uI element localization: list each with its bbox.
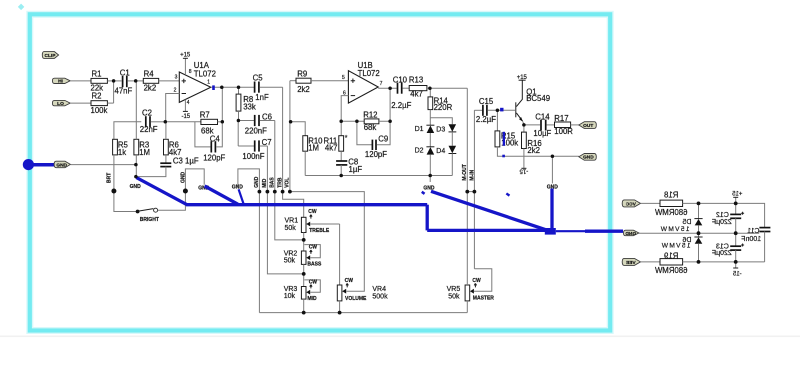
svg-text:120pF: 120pF <box>203 154 225 163</box>
junction R13/R14 <box>428 86 432 90</box>
resistor R9 2k2 <box>290 70 349 94</box>
wire M-IN vertical <box>473 110 475 268</box>
junction M-OUT <box>465 190 469 194</box>
svg-text:120pF: 120pF <box>365 150 387 159</box>
junction PSU VCC/C12 <box>734 202 738 206</box>
resistor R11 4k7 <box>324 121 348 152</box>
svg-text:R4: R4 <box>144 69 155 78</box>
resistor R16 2k2 <box>522 125 542 168</box>
resistor R12 68k <box>363 88 390 132</box>
wire VR2 bottom to VR3 <box>303 264 305 286</box>
wire VEE rail to corner <box>683 261 765 263</box>
junction bus VOL <box>288 190 292 194</box>
wire U1B pin6 to feedback <box>341 96 348 122</box>
svg-text:VEE: VEE <box>625 260 635 266</box>
wire M-OUT/M-IN link <box>467 191 474 193</box>
resistor R6 4k7 <box>164 122 182 163</box>
svg-text:BC549: BC549 <box>526 94 550 103</box>
zener diode D5 15VMW <box>660 203 703 233</box>
wire R2 up to node A <box>113 81 115 103</box>
capacitor C10 2.2uF <box>378 75 411 110</box>
resistor R19 680RMW (mirrored labels) <box>654 251 687 275</box>
svg-text:C14: C14 <box>535 113 550 122</box>
svg-text:2.2µF: 2.2µF <box>391 101 411 110</box>
svg-text:4k7: 4k7 <box>325 144 338 153</box>
net GND bus vertical <box>258 192 260 313</box>
svg-text:-15: -15 <box>732 271 741 277</box>
svg-text:BASS: BASS <box>307 261 322 267</box>
wire VCC rail to corner <box>683 203 765 227</box>
svg-text:1µF: 1µF <box>349 165 363 174</box>
svg-text:LO: LO <box>57 101 64 107</box>
blue net GND highlight: diag from switch stub <box>205 186 238 204</box>
power +15 symbol (Q1 collector) <box>517 75 528 81</box>
junction C8 ground <box>339 174 343 178</box>
svg-text:22nF: 22nF <box>140 125 158 134</box>
svg-text:15VMW: 15VMW <box>660 226 690 233</box>
switch BRIGHT <box>136 208 159 223</box>
wire VOL bus to volume pot wiper <box>290 192 364 292</box>
net VOL bus vertical <box>289 81 291 192</box>
junction PSU VEE/D6 <box>697 260 701 264</box>
svg-text:C4: C4 <box>210 134 221 143</box>
svg-text:C1: C1 <box>120 68 130 77</box>
wire emitter node to C14 <box>524 124 540 126</box>
capacitor C1 47nF <box>115 68 136 95</box>
svg-text:680RMW: 680RMW <box>654 208 687 217</box>
svg-text:CW: CW <box>308 209 317 215</box>
resistor R3 1M <box>134 81 150 177</box>
svg-text:1M: 1M <box>139 148 150 157</box>
resistor R15 100k <box>495 110 579 156</box>
wire output node down to feedback <box>221 87 223 122</box>
svg-text:TL072: TL072 <box>194 70 216 79</box>
svg-text:100nF: 100nF <box>741 236 761 243</box>
svg-text:8: 8 <box>189 69 192 75</box>
capacitor C4 120pF (parallel loop) <box>195 122 226 163</box>
svg-text:R9: R9 <box>297 70 307 79</box>
svg-text:R2: R2 <box>92 92 102 101</box>
svg-text:OUT: OUT <box>583 123 593 129</box>
resistor R7 68k <box>200 111 223 136</box>
svg-text:2k2: 2k2 <box>144 84 157 93</box>
sheet border frame (cyan) <box>30 14 610 330</box>
svg-text:D3: D3 <box>436 126 445 133</box>
power +15 symbol (PSU, mirrored) <box>732 192 743 204</box>
junction R15 top <box>496 109 500 113</box>
net label GND (ground run stub) <box>429 176 431 183</box>
resistor R13 4k7 <box>409 75 467 98</box>
junction R1/R2/C1 <box>112 79 116 83</box>
potentiometer VR5 50k MASTER <box>447 269 495 313</box>
zener diode D6 15VMW <box>661 233 703 262</box>
svg-text:MASTER: MASTER <box>473 296 495 302</box>
svg-text:C10: C10 <box>393 75 408 84</box>
diode D3 <box>436 124 456 146</box>
wire R5 top to C2 <box>114 122 141 140</box>
blue net GND highlight: vertical drop <box>426 205 429 231</box>
svg-text:+15: +15 <box>517 75 528 81</box>
svg-text:220nF: 220nF <box>245 127 267 136</box>
wire M-OUT vertical <box>466 88 468 285</box>
connector tag VEE (mirrored) <box>622 258 640 265</box>
svg-text:GND: GND <box>254 176 260 188</box>
svg-text:680RMW: 680RMW <box>654 266 687 275</box>
svg-text:*: * <box>345 135 348 142</box>
blue net GND highlight: lower horizontal run <box>427 229 546 232</box>
wire feedback row to R12 <box>341 120 364 122</box>
svg-text:GND: GND <box>56 162 67 168</box>
power -15 symbol (PSU, mirrored) <box>732 262 741 278</box>
capacitor C5 1nF <box>253 74 283 103</box>
blue highlight artifact over R15 label <box>503 132 505 146</box>
transistor Q1 BC549 <box>516 80 550 125</box>
svg-text:C12: C12 <box>716 212 729 219</box>
wire GND tag to R3 bottom <box>70 164 135 166</box>
svg-text:+15: +15 <box>732 192 743 198</box>
svg-text:TL072: TL072 <box>358 69 380 78</box>
capacitor C12 220uF (mirrored labels) <box>712 203 744 233</box>
blue net GND: medium segment to border <box>556 230 585 232</box>
svg-text:VR4: VR4 <box>372 286 386 293</box>
junction VR1/VR2/BAS <box>302 238 306 242</box>
svg-text:C6: C6 <box>262 112 272 121</box>
svg-text:-15: -15 <box>519 168 528 174</box>
svg-text:10k: 10k <box>284 293 296 300</box>
capacitor C15 2.2uF <box>474 97 515 124</box>
capacitor C8 1uF <box>336 151 362 175</box>
svg-text:CW: CW <box>309 280 318 286</box>
svg-text:5: 5 <box>342 75 345 81</box>
svg-text:1nF: 1nF <box>255 93 269 102</box>
svg-text:4: 4 <box>187 100 190 106</box>
svg-text:2k2: 2k2 <box>527 146 540 155</box>
capacitor C2 22nF <box>140 109 166 135</box>
junction bus GND <box>258 190 262 194</box>
svg-text:100nF: 100nF <box>242 152 264 161</box>
junction bus MID <box>266 190 270 194</box>
junction VR4 bottom rail <box>338 311 342 315</box>
junction PSU GND/C12 <box>734 231 738 235</box>
junction PSU VCC/D5 <box>697 202 701 206</box>
svg-text:2.2µF: 2.2µF <box>476 115 496 124</box>
wire VR1 bottom to VR2 <box>303 233 305 252</box>
svg-text:VOLUME: VOLUME <box>345 296 367 302</box>
diode D2 <box>415 147 435 176</box>
svg-text:BRT: BRT <box>107 173 113 183</box>
junction Q1 emitter <box>522 123 526 127</box>
potentiometer VR1 50k TREBLE <box>285 209 340 234</box>
svg-text:C3 1µF: C3 1µF <box>173 156 199 165</box>
power +15 symbol (U1A pin8) <box>180 53 191 75</box>
wire node A to C1 <box>114 80 122 82</box>
blue net GND highlight: vertical from Q1 stub <box>550 189 553 232</box>
potentiometer VR4 500k VOLUME <box>337 224 388 313</box>
svg-text:GND: GND <box>583 155 594 161</box>
svg-text:68k: 68k <box>364 123 377 132</box>
capacitor C6 220nF <box>239 112 275 135</box>
connector tag LO <box>52 100 70 107</box>
wire diode branch top <box>430 118 452 125</box>
capacitor C11 100nF (mirrored labels) <box>741 228 770 262</box>
svg-text:220R: 220R <box>434 103 453 112</box>
junction R3 bottom / GND wire <box>134 163 138 167</box>
svg-text:4k7: 4k7 <box>410 90 423 99</box>
svg-text:D2: D2 <box>415 148 424 155</box>
svg-text:R1: R1 <box>92 69 102 78</box>
svg-text:47nF: 47nF <box>115 86 133 95</box>
svg-text:BRIGHT: BRIGHT <box>140 217 159 223</box>
svg-text:R13: R13 <box>409 75 423 84</box>
blue net GND highlight: short diag from hook stub <box>239 189 244 204</box>
wire switch to GND stub <box>158 169 205 210</box>
svg-text:C7: C7 <box>262 138 272 147</box>
svg-text:MID: MID <box>307 296 317 302</box>
junction PSU VEE/C13 <box>734 260 738 264</box>
svg-text:1M: 1M <box>308 144 319 153</box>
wire C1 to R4 <box>136 80 144 82</box>
svg-text:VOL: VOL <box>285 178 291 188</box>
connector tag CLIP <box>42 52 58 59</box>
wire U1A pin2 to feedback node <box>166 94 180 122</box>
junction R7/C4 right <box>221 120 225 124</box>
svg-text:33k: 33k <box>243 102 256 111</box>
junction VOL/R10 <box>289 120 293 124</box>
power -15 symbol (U1A pin4) <box>181 100 190 120</box>
svg-text:2k2: 2k2 <box>297 85 310 94</box>
blue net GND: thick segment crossing border <box>585 230 623 233</box>
wire R5 bottom to bright switch <box>114 155 137 212</box>
resistor R8 33k <box>236 87 256 120</box>
capacitor C3 1uF <box>136 156 199 176</box>
wire LO to R2 <box>70 102 91 104</box>
junction U1B output <box>388 86 392 90</box>
blue highlight artifact near R15 bottom <box>502 155 505 158</box>
junction U1B feedback left <box>339 120 343 124</box>
svg-text:VCC: VCC <box>625 201 636 207</box>
svg-text:C9: C9 <box>378 135 388 144</box>
svg-text:D1: D1 <box>415 126 424 133</box>
wire HI to R1 <box>70 80 91 82</box>
wire GND bus stub (left hook) <box>238 169 260 192</box>
wire GND rail (PSU) <box>639 232 759 234</box>
blue net GND junction square <box>545 228 556 235</box>
wire GND stub below R15 node <box>551 156 553 183</box>
blue artifact tick near M-IN bottom <box>506 192 510 196</box>
svg-text:R7: R7 <box>200 111 210 120</box>
faint bottom ghost line <box>0 336 800 338</box>
svg-text:R18: R18 <box>664 191 678 200</box>
svg-text:C11: C11 <box>747 228 759 235</box>
svg-text:M-IN: M-IN <box>469 169 475 180</box>
junction R15 bottom / GND <box>551 154 555 158</box>
junction bus BAS <box>273 190 277 194</box>
svg-text:10µF: 10µF <box>533 129 551 138</box>
blue net GND highlight: long diagonal <box>431 191 549 230</box>
power -15 symbol (R16 bottom) <box>519 168 528 174</box>
svg-text:U1A: U1A <box>194 61 210 70</box>
svg-text:CW: CW <box>345 278 354 284</box>
svg-text:15VMW: 15VMW <box>661 243 691 250</box>
connector tag HI <box>52 78 70 85</box>
svg-text:CLIP: CLIP <box>45 53 57 59</box>
svg-text:100k: 100k <box>91 106 108 115</box>
svg-text:220µF: 220µF <box>712 219 732 226</box>
svg-text:3: 3 <box>175 74 178 80</box>
svg-text:HI: HI <box>58 79 63 85</box>
svg-text:50k: 50k <box>285 225 297 232</box>
svg-text:500k: 500k <box>372 294 388 301</box>
resistor R1 22k <box>91 69 114 92</box>
connector tag GND (left, highlighted) <box>23 159 71 170</box>
svg-text:50k: 50k <box>284 258 296 265</box>
junction PSU GND/D5 <box>697 231 701 235</box>
resistor R14 220R <box>428 88 453 125</box>
wire feedback node to R7 <box>166 121 201 123</box>
connector tag OUT <box>579 122 597 129</box>
svg-text:C2: C2 <box>142 109 152 118</box>
svg-text:-15: -15 <box>181 114 190 120</box>
svg-text:7: 7 <box>380 81 383 87</box>
potentiometer VR2 50k BASS <box>284 244 322 267</box>
svg-text:GND: GND <box>232 185 244 191</box>
cyan diamond mark top-left <box>18 4 25 11</box>
connector tag VCC (mirrored) <box>622 200 640 207</box>
wire pot ground rail <box>259 312 467 314</box>
svg-text:TREBLE: TREBLE <box>309 228 330 234</box>
junction bus TRB <box>281 190 285 194</box>
svg-text:R17: R17 <box>554 114 568 123</box>
diode D4 <box>436 146 456 176</box>
resistor R5 1k <box>113 139 129 157</box>
svg-text:GND: GND <box>180 172 186 184</box>
svg-text:100R: 100R <box>554 127 573 136</box>
svg-text:1k: 1k <box>118 148 126 157</box>
svg-text:BAS: BAS <box>270 177 276 188</box>
svg-text:TRB: TRB <box>277 177 283 188</box>
junction R3 / C3 / blue stub <box>134 175 138 179</box>
junction M-IN <box>473 190 477 194</box>
wire U1A output <box>211 86 255 88</box>
capacitor C7 100nF <box>238 138 271 161</box>
svg-text:MID: MID <box>262 178 268 188</box>
junction switch left (fat) <box>111 189 116 194</box>
net TRB bus vertical <box>283 87 304 217</box>
junction switch right (fat) <box>183 189 188 194</box>
svg-text:D5: D5 <box>682 219 691 226</box>
junction VR2/VR3/MID <box>302 272 306 276</box>
junction C5/R8 <box>237 85 241 89</box>
svg-text:R12: R12 <box>363 110 377 119</box>
svg-text:CW: CW <box>472 278 481 284</box>
resistor R18 680RMW (mirrored labels) <box>654 191 687 217</box>
junction C1/R4/R3 <box>134 79 138 83</box>
junction C9 left <box>355 120 359 124</box>
svg-text:D4: D4 <box>436 148 445 155</box>
svg-text:GND: GND <box>130 184 142 190</box>
connector tag GND (right) <box>579 154 597 161</box>
blue net GND highlight: main horizontal run <box>186 203 427 206</box>
wire R4 to U1A pin3 <box>159 80 180 82</box>
svg-text:VR1: VR1 <box>285 218 299 225</box>
resistor R10 1M <box>291 122 324 176</box>
resistor R4 2k2 <box>143 69 158 92</box>
diode D1 <box>415 125 435 147</box>
svg-text:R19: R19 <box>664 251 678 260</box>
resistor R17 100R <box>554 114 579 136</box>
svg-text:2: 2 <box>174 88 177 94</box>
capacitor C13 220uF (mirrored labels) <box>712 233 744 262</box>
wire second-stage ground run <box>305 175 452 177</box>
blue highlight artifact at U1A output <box>212 85 215 90</box>
svg-text:50k: 50k <box>448 294 460 301</box>
svg-text:VR5: VR5 <box>447 286 461 293</box>
capacitor C14 10uF <box>533 113 554 138</box>
junction R8/C6 <box>237 119 241 123</box>
net BAS bus vertical <box>275 121 304 240</box>
op-amp U1B TL072 <box>342 61 383 103</box>
wire VEE rail <box>641 261 661 263</box>
svg-text:1: 1 <box>207 80 210 86</box>
blue net GND highlight: diag from R3 stub <box>136 178 187 205</box>
svg-text:+15: +15 <box>180 53 191 59</box>
junction feedback node U1A <box>164 120 168 124</box>
junction VR3 bottom rail <box>302 311 306 315</box>
capacitor C9 120pF (parallel loop) <box>357 121 390 159</box>
svg-text:CW: CW <box>309 244 318 250</box>
junction U1A output <box>220 85 224 89</box>
svg-text:C5: C5 <box>253 74 264 83</box>
wire VCC rail <box>641 202 661 204</box>
wire C6 node down to C7 <box>237 121 239 147</box>
svg-text:C15: C15 <box>479 97 494 106</box>
net MID bus vertical <box>267 146 303 274</box>
svg-text:M-OUT: M-OUT <box>462 164 468 180</box>
svg-text:220µF: 220µF <box>712 250 732 257</box>
connector tag GND (PSU, mirrored) <box>624 230 639 237</box>
junction D2 ground <box>428 174 432 178</box>
op-amp U1A TL072 <box>179 61 216 106</box>
svg-text:GND: GND <box>625 231 636 237</box>
blue artifact tick near M-OUT <box>421 191 425 195</box>
resistor R2 100k <box>91 92 114 115</box>
wire VR3 bottom to rail <box>303 299 305 313</box>
blue highlight artifact on base wire <box>500 108 503 112</box>
junction R12/C9 right <box>388 120 392 124</box>
potentiometer VR3 10k MID <box>284 280 321 302</box>
